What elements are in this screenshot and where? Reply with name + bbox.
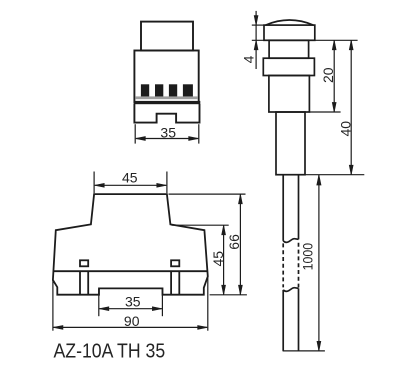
top view: left clip square <box>80 260 88 266</box>
front view: thick base bar <box>134 101 201 104</box>
svg-text:1000: 1000 <box>300 243 316 271</box>
dim35b extension right <box>161 289 163 316</box>
dim4 arrow up (below) <box>254 40 258 50</box>
dim90 extension left <box>52 280 54 331</box>
probe: body rectangle <box>269 76 310 113</box>
probe: dome arc <box>266 20 314 25</box>
probe: tube break squiggle bottom <box>283 288 298 292</box>
dim40 arrow down <box>349 165 353 175</box>
dim90 arrow left <box>53 326 63 330</box>
probe: tube lower right line <box>298 288 300 351</box>
dim45r vertical line <box>223 225 225 294</box>
dim1000 extension bottom (tube bottom) <box>283 350 325 352</box>
probe: cap rectangle <box>264 25 315 40</box>
dim66 arrow down <box>239 285 243 295</box>
top view: horizontal divider line <box>54 270 208 272</box>
probe: tube break squiggle top <box>283 239 298 243</box>
dim45r extension top <box>172 224 229 226</box>
dim40 vertical line <box>350 40 352 174</box>
probe: tube upper left line <box>282 175 284 241</box>
front view: gray band <box>135 96 198 99</box>
dim20 arrow up <box>332 40 336 50</box>
dim35b line <box>99 308 162 310</box>
dim66 vertical line <box>239 194 241 294</box>
probe: neck rectangle <box>269 40 309 58</box>
svg-text:45: 45 <box>210 251 226 267</box>
svg-text:35: 35 <box>125 294 141 310</box>
svg-text:40: 40 <box>337 121 353 137</box>
probe: tube dashed left <box>282 243 284 287</box>
svg-text:45: 45 <box>122 170 138 186</box>
dim45t arrow right <box>157 183 167 187</box>
probe: collar rectangle <box>263 58 314 75</box>
dim35b arrow left <box>99 307 109 311</box>
dim90 extension right <box>207 276 209 330</box>
dim20 extension bottom (body bottom) <box>310 111 341 113</box>
dim90 arrow right <box>198 326 208 330</box>
dim35f arrow left <box>136 137 146 141</box>
top view: left slot line a <box>79 271 81 294</box>
svg-text:35: 35 <box>160 124 176 140</box>
dim66 extension top <box>169 193 246 195</box>
front view: top cap rectangle <box>141 22 193 51</box>
svg-text:66: 66 <box>226 234 242 250</box>
front view: main body rectangle <box>134 51 198 103</box>
front view: terminal square 3 <box>169 84 177 96</box>
svg-text:90: 90 <box>124 313 140 329</box>
top view: right clip square <box>171 260 179 266</box>
dim45r arrow up <box>222 225 226 235</box>
svg-text:AZ-10A TH 35: AZ-10A TH 35 <box>54 341 166 363</box>
dim45r arrow down <box>222 285 226 295</box>
dim20 arrow down <box>332 103 336 113</box>
dim90 line <box>53 326 207 328</box>
dim35b extension left <box>98 289 100 316</box>
dim1000 arrow up <box>317 175 321 185</box>
dim35b arrow right <box>152 307 162 311</box>
svg-text:20: 20 <box>320 67 336 83</box>
dim45t extension left <box>93 172 95 194</box>
dim20 vertical line <box>333 40 335 112</box>
dim66/45r extension bottom <box>210 294 247 296</box>
dim35f extension right <box>198 124 200 143</box>
probe dimension lines <box>252 11 364 351</box>
probe: tube dashed right <box>298 243 300 288</box>
dim4/dim20/dim40 shared extension (cap bottom) <box>252 39 358 41</box>
top view: right slot line a <box>170 271 172 294</box>
dim4 vertical line <box>255 11 257 69</box>
front view: terminal square 2 <box>155 84 163 96</box>
top view: right slot line b <box>178 271 180 294</box>
svg-text:4: 4 <box>241 55 257 63</box>
dim45t line <box>95 184 167 186</box>
dim35f arrow right <box>189 137 199 141</box>
dim35f line <box>136 138 198 140</box>
dim66 arrow up <box>239 194 243 204</box>
dim4 extension top <box>252 24 265 26</box>
front view: terminal square 4 <box>183 84 193 96</box>
probe: tube lower left line <box>282 290 284 351</box>
front view: bottom strip with DIN recess <box>134 104 199 123</box>
dim40 arrow up <box>349 40 353 50</box>
probe: middle section rectangle <box>276 112 305 175</box>
dim45t arrow left <box>95 183 105 187</box>
dim35f extension left <box>134 124 136 143</box>
probe: tube upper right line <box>298 175 300 240</box>
dim40 extension bottom (middle bottom, long) <box>305 174 364 176</box>
dim45t extension right <box>166 172 168 194</box>
dim4 arrow down (above) <box>254 16 258 26</box>
top view: left slot line b <box>87 271 89 294</box>
dim1000 vertical line <box>318 175 320 351</box>
dim1000 arrow down <box>317 341 321 351</box>
front view dimension 35 <box>135 124 199 143</box>
top view: device profile outline <box>53 194 208 295</box>
front view: terminal square 1 <box>141 84 149 96</box>
